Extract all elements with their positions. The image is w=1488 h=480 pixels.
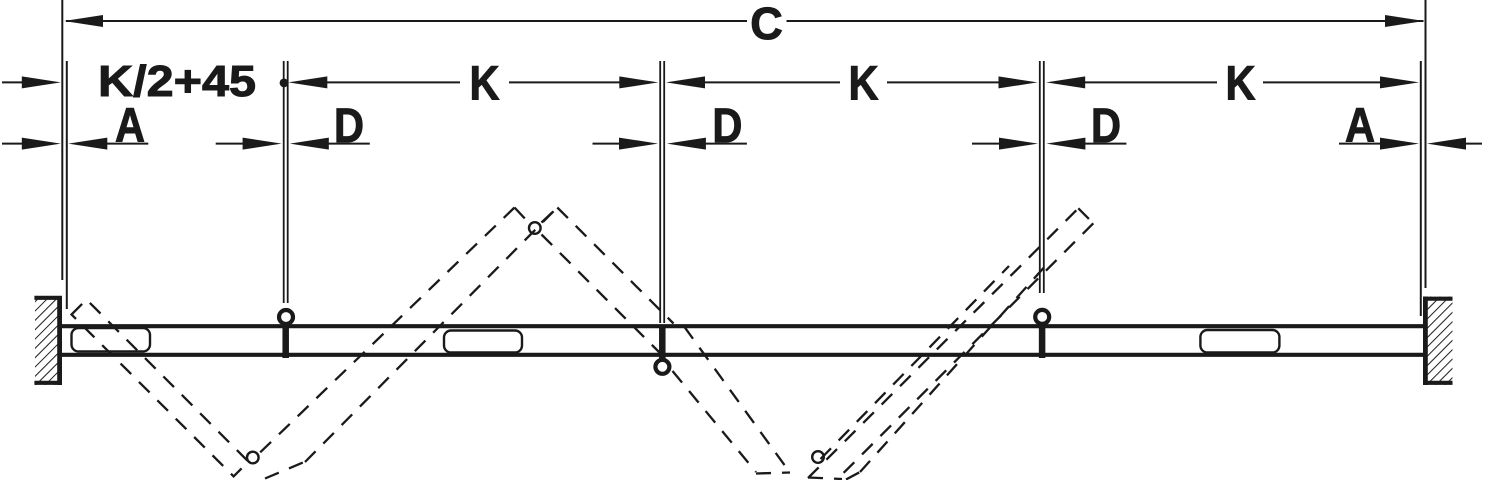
door panel R top cap [1078, 208, 1093, 223]
left wall right edge [57, 296, 62, 385]
dimension K1 line right [509, 81, 621, 83]
dimension C left arrowhead [64, 15, 103, 27]
dimension C line [66, 20, 747, 22]
A/D row: left outside arrow [2, 143, 24, 145]
extension line left inner (track end) [66, 61, 68, 309]
junction 2 bar [659, 325, 666, 360]
door panel P4 right edge [684, 327, 789, 472]
door panel P2 right edge [305, 208, 557, 463]
dimension D3 left tail [972, 143, 1002, 145]
door panel R lower edge [837, 223, 1093, 479]
dimension D3 right arrowhead [1046, 138, 1085, 150]
door panel P2 left edge (vertex V1 to peak) [258, 208, 515, 455]
extension line pair junction 1 [283, 61, 285, 303]
dimension D1 right arrowhead [290, 138, 329, 150]
left wall top edge [34, 296, 62, 300]
peak cap left [515, 208, 529, 223]
dimension K2 left arrowhead [666, 76, 705, 88]
left wall bottom edge [34, 381, 62, 385]
dimension D1 right tail [328, 143, 370, 145]
door panel P5 edge 1 (from vertex V2 rising toward junction 3) [821, 266, 1010, 459]
right wall top edge [1423, 297, 1453, 301]
slider 2 [444, 331, 522, 353]
vertex hinge circle V2 [812, 451, 824, 463]
dimension A1 arrowhead [68, 138, 107, 150]
dimension D1 left arrowhead [243, 138, 282, 150]
K/2+45 end dot [280, 79, 289, 88]
door panel P2 bottom cap [265, 463, 303, 479]
slider 3 [1200, 330, 1279, 353]
svg-text:A: A [115, 100, 145, 153]
track bottom line [62, 353, 1423, 357]
svg-text:K: K [1226, 58, 1256, 111]
peak hinge circle [529, 222, 541, 234]
door panel P4 bottom cap [756, 473, 790, 474]
svg-text:D: D [1091, 100, 1121, 153]
dimension K3 right arrowhead [1380, 76, 1419, 88]
svg-text:K: K [849, 58, 879, 111]
dimension K3 line [1084, 81, 1217, 83]
svg-text:K/2+45: K/2+45 [98, 57, 256, 106]
dimension D2 left tail [593, 143, 623, 145]
svg-text:C: C [750, 0, 783, 49]
junction 1 bar [282, 325, 289, 359]
track top line [62, 324, 1423, 328]
door panel P5 edge 2 [860, 263, 1048, 472]
junction 2 pivot circle [655, 360, 669, 374]
dimension A1 tail line [106, 143, 148, 145]
dimension A2 tail line [1339, 143, 1382, 145]
left wall hatch [35, 296, 60, 385]
peak cap right [542, 208, 558, 223]
extension line pair junction 3 [1039, 61, 1041, 293]
junction 3 pivot circle [1035, 310, 1049, 324]
A/D row: right outside arrow [1427, 138, 1466, 150]
junction 1 pivot circle [279, 310, 293, 324]
dimension D2 right arrowhead [667, 138, 706, 150]
extension line right outer (wall face) [1425, 0, 1427, 288]
svg-text:D: D [712, 100, 742, 153]
svg-text:A: A [1345, 100, 1375, 153]
extension line left outer (wall face) [61, 0, 63, 280]
right wall left edge [1423, 297, 1428, 386]
junction 3 bar [1039, 325, 1046, 359]
dimension D3 right tail [1084, 143, 1126, 145]
dimension K1 line [326, 81, 460, 83]
dimension C right arrowhead [1385, 15, 1424, 27]
dimension A2 arrowhead [1380, 138, 1419, 150]
right wall bottom edge [1423, 381, 1453, 385]
dimension D2 right tail [705, 143, 747, 145]
folded door panel P1 (dashed rectangle from wall to vertex V1) [72, 300, 249, 477]
K row: left outside arrow [2, 81, 24, 83]
door panel P3 left edge (peak to junction 2) [542, 235, 661, 354]
door panel P4 left edge (junction 2 to vertex V2) [673, 371, 757, 472]
extension line pair junction 2 [659, 61, 661, 323]
dimension K2 line right [887, 81, 1000, 83]
slider 1 [72, 328, 151, 352]
dimension K3 line right [1263, 81, 1382, 83]
right wall hatch [1425, 297, 1452, 386]
svg-text:D: D [334, 100, 364, 153]
vertex hinge circle V1 [247, 452, 259, 464]
dimension K2 right arrowhead [999, 76, 1038, 88]
dimension D3 left arrowhead [999, 138, 1038, 150]
dimension K1 left arrowhead [288, 76, 327, 88]
dimension K2 line [704, 81, 840, 83]
door panel bottom caps near V2 [808, 478, 842, 480]
dimension K3 left arrowhead [1046, 76, 1085, 88]
svg-text:K: K [470, 58, 500, 111]
extension line right inner (track end) [1420, 61, 1422, 316]
dimension D2 left arrowhead [619, 138, 658, 150]
dimension D1 left tail [216, 143, 245, 145]
dimension K1 right arrowhead [619, 76, 658, 88]
door panel P3 right edge [557, 208, 673, 324]
door panel R upper edge (vertex V2 to top near junction 3) [808, 208, 1078, 478]
